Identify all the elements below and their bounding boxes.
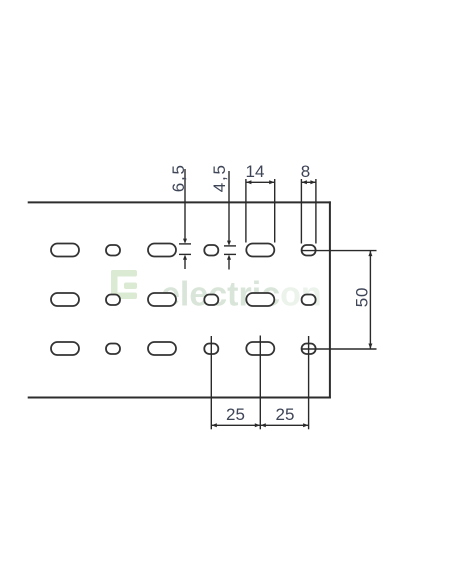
svg-text:14: 14 <box>246 162 265 181</box>
dimension 50 extension line bottom <box>301 348 377 350</box>
dimension 6,5 tick bottom <box>179 253 191 255</box>
slot row2 col2 <box>148 293 176 306</box>
dimension 25 extension line left <box>210 336 212 429</box>
dimension 25 arrow left <box>212 423 217 427</box>
dimension 25 extension line middle <box>259 336 261 430</box>
svg-text:electricon: electricon <box>161 276 322 314</box>
dimension 25 extension line right <box>308 336 310 429</box>
dimension 14 dimension line <box>246 181 275 183</box>
dimension 4,5 extension line upper <box>228 171 230 243</box>
strip top edge <box>28 201 331 203</box>
dimension 8 dimension line <box>301 181 316 183</box>
dimension 25 dimension line <box>211 424 308 426</box>
svg-text:25: 25 <box>226 405 245 424</box>
svg-text:50: 50 <box>353 287 372 308</box>
dimension 6,5 tick top <box>179 243 191 245</box>
strip bottom edge <box>28 397 331 399</box>
dimension 6,5 extension line lower <box>184 259 186 269</box>
slot row1 col1 <box>51 244 79 257</box>
dimension 14 extension line left <box>245 179 247 243</box>
hole row1 col2 <box>204 245 218 256</box>
svg-text:4,5: 4,5 <box>210 163 229 192</box>
hole row1 col3 <box>302 245 316 256</box>
hole row2 col2 <box>204 295 218 306</box>
dimension 50 extension line top <box>301 250 377 252</box>
dimension 4,5 tick bottom <box>224 253 236 255</box>
dimension 6,5 extension line upper <box>184 169 186 241</box>
dimension 4,5 arrow upper <box>227 241 231 246</box>
dimension 8 arrow right <box>310 180 315 184</box>
dimension 6,5 arrow lower <box>183 255 187 260</box>
dimension 4,5 arrow lower <box>227 255 231 260</box>
slot row1 col3 <box>246 244 274 257</box>
slot row1 col2 <box>148 244 176 257</box>
dimension 14 arrow right <box>269 180 274 184</box>
dimension 25 arrow right <box>303 423 308 427</box>
dimension 25 arrows middle <box>255 423 260 427</box>
strip right edge <box>329 201 331 398</box>
watermark logo <box>111 270 137 299</box>
dimension 6,5 arrow upper <box>183 239 187 244</box>
slot row2 col3 <box>246 293 274 306</box>
dimension 50 dimension line <box>369 251 371 349</box>
hole row3 col3 <box>302 344 316 355</box>
slot row3 col3 <box>246 342 274 355</box>
dimension 8 extension line left <box>300 179 302 244</box>
svg-text:25: 25 <box>276 405 295 424</box>
dimension 8 extension line right <box>315 179 317 244</box>
dimension 8 arrow left <box>302 180 307 184</box>
dimension 50 arrow bottom <box>368 344 372 349</box>
dimension 14 arrow left <box>246 180 251 184</box>
hole row2 col1 <box>106 295 120 306</box>
hole row3 col1 <box>106 344 120 355</box>
dimension 14 extension line right <box>274 179 276 243</box>
hole row2 col3 <box>302 295 316 306</box>
hole row3 col2 <box>204 344 218 355</box>
dimension 50 arrow top <box>368 251 372 256</box>
hole row1 col1 <box>106 245 120 256</box>
slot row3 col1 <box>51 342 79 355</box>
dimension 4,5 extension line lower <box>228 259 230 270</box>
svg-text:8: 8 <box>301 162 310 181</box>
svg-text:6,5: 6,5 <box>169 163 188 192</box>
slot row3 col2 <box>148 342 176 355</box>
dimension 4,5 tick top <box>224 245 236 247</box>
slot row2 col1 <box>51 293 79 306</box>
